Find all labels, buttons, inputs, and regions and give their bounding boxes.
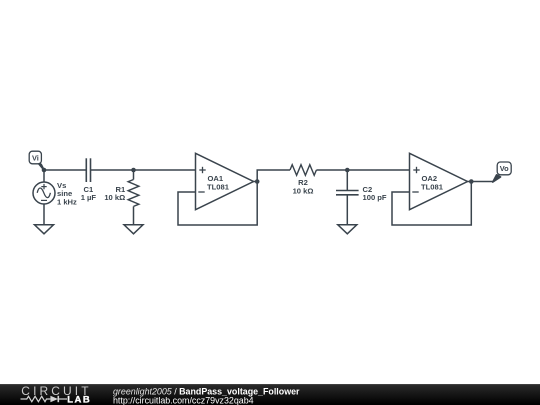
junction dot OA1 output — [255, 179, 260, 184]
svg-text:10 kΩ: 10 kΩ — [104, 193, 125, 202]
wire Vi node to C1 — [44, 169, 86, 171]
svg-text:100 pF: 100 pF — [363, 193, 387, 202]
capacitor C2 — [336, 185, 387, 202]
junction dot node A — [131, 168, 136, 173]
voltage source VS (sine) — [33, 181, 77, 206]
node label Vo — [493, 162, 512, 182]
wire node A to OA1 — [134, 169, 196, 171]
wire Vi node to source VS — [43, 170, 45, 182]
ground under R1 — [124, 225, 143, 234]
wire VS to ground — [43, 204, 45, 225]
svg-text:Vo: Vo — [500, 164, 509, 173]
svg-text:10 kΩ: 10 kΩ — [293, 187, 314, 196]
wire R1 to ground — [133, 206, 135, 224]
svg-text:1 µF: 1 µF — [81, 193, 97, 202]
svg-text:TL081: TL081 — [421, 182, 444, 191]
resistor R2 — [290, 165, 316, 196]
wire OA2 output to Vo — [471, 181, 493, 183]
wire node B to OA2 — [347, 169, 409, 171]
wire OA1 output to R2 — [257, 170, 290, 182]
logo resistor-diode glyph — [21, 396, 68, 402]
svg-text:Vi: Vi — [32, 153, 39, 162]
svg-text:TL081: TL081 — [207, 182, 230, 191]
wire OA2 feedback loop — [392, 182, 471, 226]
wire C2 to ground — [346, 195, 348, 225]
wire node B to C2 — [346, 170, 348, 191]
junction dot node Vi — [42, 168, 47, 173]
wire OA1 output stub — [254, 181, 258, 183]
op-amp OA1 — [196, 153, 254, 209]
junction dot OA2 output — [469, 179, 474, 184]
ground under VS — [35, 225, 54, 234]
capacitor C1 — [81, 158, 97, 202]
svg-text:LAB: LAB — [67, 395, 91, 405]
ground under C2 — [338, 225, 357, 234]
svg-text:http://circuitlab.com/ccz79vz3: http://circuitlab.com/ccz79vz32qab4 — [113, 396, 254, 405]
resistor R1 — [104, 170, 139, 206]
wire OA1 feedback loop — [178, 182, 257, 226]
wire OA2 output stub — [468, 181, 472, 183]
footer bar — [0, 384, 540, 405]
wire C1 to node A — [91, 169, 134, 171]
svg-text:1 kHz: 1 kHz — [57, 197, 77, 206]
node label Vi — [29, 151, 44, 170]
svg-text:R2: R2 — [298, 178, 308, 187]
op-amp OA2 — [410, 153, 468, 209]
wire R2 to node B — [316, 169, 347, 171]
junction dot node B — [345, 168, 350, 173]
